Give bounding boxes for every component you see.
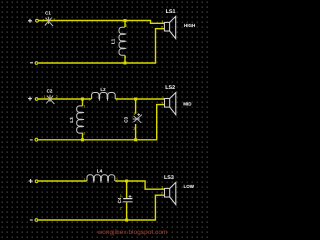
svg-text:1: 1: [83, 105, 85, 109]
svg-text:1: 1: [120, 194, 122, 198]
svg-text:2: 2: [133, 127, 135, 131]
svg-text:L2: L2: [100, 87, 106, 92]
svg-text:1: 1: [89, 97, 91, 101]
svg-text:1: 1: [84, 178, 86, 182]
svg-text:L1: L1: [111, 38, 116, 44]
svg-text:MID: MID: [183, 102, 192, 107]
svg-text:2: 2: [53, 18, 55, 22]
svg-text:1: 1: [44, 95, 46, 99]
svg-text:2: 2: [83, 132, 85, 136]
svg-text:wongjibex.blogspot.com: wongjibex.blogspot.com: [97, 229, 168, 236]
svg-text:2: 2: [125, 24, 127, 28]
svg-text:1: 1: [133, 112, 135, 116]
svg-text:2: 2: [56, 95, 58, 99]
svg-text:1: 1: [125, 55, 127, 59]
svg-text:2: 2: [116, 97, 118, 101]
svg-text:2: 2: [161, 192, 163, 196]
svg-text:2: 2: [161, 26, 163, 30]
svg-text:2: 2: [120, 206, 122, 210]
svg-text:2: 2: [116, 178, 118, 182]
svg-text:LS1: LS1: [166, 9, 176, 15]
svg-text:LS2: LS2: [165, 85, 175, 91]
svg-text:1: 1: [162, 96, 164, 100]
svg-text:1: 1: [43, 18, 45, 22]
svg-text:C2: C2: [47, 88, 53, 93]
svg-text:1: 1: [162, 20, 164, 24]
svg-text:LS3: LS3: [164, 175, 174, 181]
svg-text:C1: C1: [45, 10, 51, 15]
svg-text:C3: C3: [124, 116, 129, 122]
svg-text:HIGH: HIGH: [184, 23, 195, 28]
svg-text:1: 1: [161, 186, 163, 190]
svg-text:L4: L4: [97, 168, 103, 173]
svg-text:L3: L3: [69, 117, 74, 123]
svg-text:LOW: LOW: [184, 184, 195, 189]
svg-text:2: 2: [161, 102, 163, 106]
